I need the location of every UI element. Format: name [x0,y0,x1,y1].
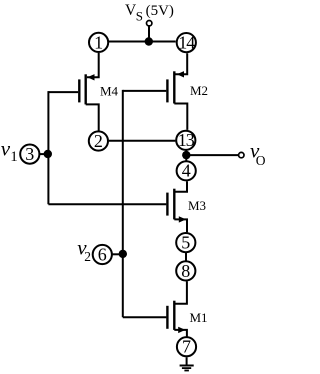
wire v1 node to M3 gate [48,203,166,205]
wire top supply bus [109,41,176,43]
wire M2 gate lead [123,90,167,92]
wire output to vO terminal [186,154,238,156]
wire pin8 to M1 drain [174,281,187,303]
svg-text:13: 13 [178,130,195,150]
wire M3 source to pin5 [174,219,187,232]
wire pin14 to M2 source [176,53,188,74]
pin 3 [20,144,39,164]
transistor M2 [167,71,208,103]
pin 7 [177,337,196,357]
wire VS stem [148,26,150,42]
svg-text:5: 5 [181,233,190,253]
svg-text:M1: M1 [190,310,208,325]
junction v1 node [44,150,52,158]
wire M4 drain to pin2 [86,104,99,130]
node label v2 [77,235,91,264]
wire middle rail v2 node [122,90,124,317]
svg-text:14: 14 [178,33,195,53]
wire M4 gate lead [48,91,78,93]
svg-text:1: 1 [10,149,17,165]
svg-text:M3: M3 [188,198,206,213]
svg-text:4: 4 [182,161,191,181]
transistor M4 [79,74,118,104]
transistor M1 [167,301,207,333]
node label v1 [1,136,18,164]
wire pin7 to ground [186,357,188,365]
svg-text:M2: M2 [190,83,208,98]
pin 4 [177,161,196,181]
wire pin5 to pin8 [185,253,187,261]
wire pin4 to M3 drain [174,181,187,192]
pin 1 [89,32,108,52]
svg-text:(5V): (5V) [146,3,174,19]
svg-text:1: 1 [94,32,103,52]
svg-text:7: 7 [182,337,191,357]
svg-text:8: 8 [181,261,190,281]
supply terminal VS [147,21,152,26]
ground [180,366,194,371]
svg-text:O: O [256,153,266,168]
pin 14 [177,33,196,53]
junction v2 node [119,250,127,258]
wire pin1 to M4 source [87,53,99,77]
svg-text:S: S [136,8,143,23]
wire pin13 to pin4 output node [185,151,187,161]
svg-text:2: 2 [94,131,103,151]
pin 5 [176,233,195,253]
wire pin2 to pin13 [109,140,175,142]
svg-text:v: v [1,136,11,160]
wire pin6 to v2 node [112,253,123,255]
pin 2 [89,131,108,151]
svg-text:3: 3 [25,144,34,164]
wire M1 source to pin7 [174,330,187,337]
junction VS on top bus [145,37,153,45]
node label vO [250,139,266,168]
transistor M3 [167,189,206,223]
svg-text:6: 6 [98,244,107,264]
junction output node [182,151,190,159]
pin 6 [93,244,112,264]
svg-text:2: 2 [84,249,91,264]
wire left rail v1 node [47,91,49,204]
output terminal vO [239,152,244,157]
pin 13 [176,130,195,150]
supply label VS (5V) [125,2,174,24]
wire M2 drain to pin13 [174,104,187,130]
wire pin3 to v1 node [40,153,48,155]
svg-text:M4: M4 [100,83,119,98]
pin 8 [176,261,195,281]
wire v2 node to M1 gate [123,316,167,318]
